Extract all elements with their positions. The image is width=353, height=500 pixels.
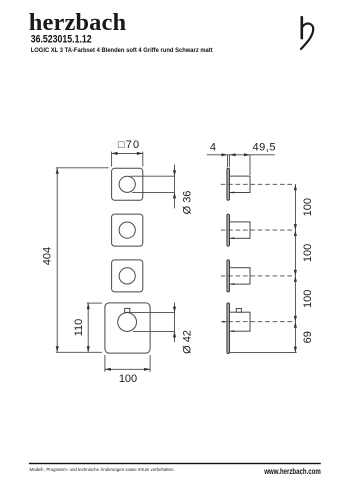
svg-text:Modell-, Programm- und technis: Modell-, Programm- und technische Änderu… — [30, 467, 175, 472]
svg-text:110: 110 — [73, 319, 85, 337]
svg-text:100: 100 — [302, 244, 314, 262]
svg-text:69: 69 — [302, 331, 314, 343]
svg-text:100: 100 — [302, 198, 314, 216]
svg-text:404: 404 — [41, 247, 53, 265]
svg-text:□70: □70 — [118, 139, 139, 151]
svg-text:100: 100 — [302, 290, 314, 308]
svg-text:Ø 36: Ø 36 — [181, 191, 193, 215]
svg-text:49,5: 49,5 — [253, 142, 276, 154]
svg-text:www.herzbach.com: www.herzbach.com — [264, 466, 321, 476]
svg-text:Ø 42: Ø 42 — [182, 330, 194, 354]
svg-text:LOGIC XL 3 TA-Farbset 4 Blende: LOGIC XL 3 TA-Farbset 4 Blenden soft 4 G… — [31, 47, 214, 54]
svg-text:100: 100 — [119, 373, 137, 385]
svg-text:4: 4 — [210, 142, 216, 154]
svg-text:herzbach: herzbach — [29, 9, 127, 36]
svg-text:36.523015.1.12: 36.523015.1.12 — [31, 33, 92, 45]
